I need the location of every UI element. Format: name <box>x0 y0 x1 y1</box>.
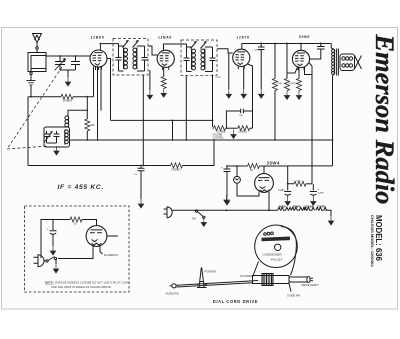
power plug <box>164 207 270 218</box>
oscillator grid line <box>68 110 87 116</box>
inset tube bottom leads <box>58 246 103 259</box>
inset switch <box>46 257 57 265</box>
wire IFT2 to 12AT6 grid <box>217 49 233 53</box>
tube 50B5 <box>292 44 309 71</box>
wire loop to ground bus <box>30 86 32 97</box>
svg-text:.02MFD: .02MFD <box>254 50 262 52</box>
resistor 220K plate load <box>273 44 283 141</box>
wire: loop top to 12BE6 grid <box>46 55 90 57</box>
filament 12AT6 <box>316 204 327 210</box>
internal wiring <box>119 46 148 71</box>
variable capacitor C1A (ant tuning) <box>55 56 66 71</box>
secondary coil <box>133 48 137 70</box>
trimmer capacitor C2 <box>71 56 80 70</box>
AVC drops <box>172 120 174 140</box>
svg-text:22K: 22K <box>90 123 95 127</box>
svg-text:NOTE: CHASSIS MODELS 120036B D: NOTE: CHASSIS MODELS 120036B DO NOT USE … <box>45 281 130 285</box>
svg-text:IF = 455 KC.: IF = 455 KC. <box>58 184 105 191</box>
resistor 470K grid <box>285 44 298 91</box>
svg-text:(3 MEG): (3 MEG) <box>239 131 248 133</box>
oscillator coil top <box>65 116 69 127</box>
cathode resistor 12BA6 <box>161 67 166 88</box>
electrolytic 50MFD <box>310 184 320 197</box>
left guide pin <box>170 284 177 288</box>
svg-text:+: + <box>318 187 320 191</box>
filament 12BA6 <box>304 204 315 210</box>
volume control <box>213 126 253 131</box>
svg-text:FILAMENTS: FILAMENTS <box>104 254 118 257</box>
pilot lamp <box>234 166 259 196</box>
AVC rail <box>111 119 213 121</box>
IFT2 secondary to volume control (AVC line) <box>212 75 214 128</box>
svg-text:+: + <box>47 227 49 231</box>
IFT1 bottom drop to AVC line <box>142 75 144 166</box>
svg-text:50B5: 50B5 <box>299 35 310 39</box>
B- return line <box>28 165 171 167</box>
inset electrolytic <box>47 220 57 247</box>
filter cap input lead <box>227 165 248 167</box>
svg-text:12BE6: 12BE6 <box>91 36 105 40</box>
B- bus <box>70 139 333 141</box>
wire 12BE6 plate to IFT1 <box>100 44 118 46</box>
IF transformer T1 (dashed box) <box>113 39 148 76</box>
electrolytic 30MFD output <box>282 184 292 197</box>
antenna <box>33 34 42 53</box>
tube 12BA6 <box>157 44 186 70</box>
drive shaft <box>253 274 314 286</box>
inset plug <box>34 255 46 267</box>
filter network <box>260 166 295 184</box>
svg-text:PULLEY: PULLEY <box>271 257 283 261</box>
filament 50B5 <box>278 204 292 210</box>
NOTE inset dashed box <box>25 206 130 292</box>
ground bus under antenna <box>28 96 61 98</box>
12AT6 plate to audio coupling capacitor .006 <box>226 64 252 128</box>
svg-text:12BA6: 12BA6 <box>304 204 313 208</box>
B- arrow onto power line <box>224 195 229 204</box>
switch SW <box>192 210 205 221</box>
loop antenna L1 <box>28 53 46 75</box>
svg-text:35W4: 35W4 <box>293 204 301 208</box>
wires below 12BE6 <box>94 67 102 141</box>
resistor 1000 ohm <box>294 181 306 186</box>
svg-text:1000: 1000 <box>296 181 302 183</box>
wire IFT1 to 12BA6 grid <box>148 46 157 55</box>
50B5 cathode resistor <box>294 67 302 90</box>
capacitor .02MFD bus to ground <box>254 44 265 90</box>
svg-text:POINTER: POINTER <box>205 270 217 274</box>
ground arrow below tuning caps <box>65 77 70 86</box>
svg-text:AND THE 35W4 IS WIRED AS SHOWN: AND THE 35W4 IS WIRED AS SHOWN ABOVE. <box>51 285 112 289</box>
wire joining caps to ground <box>60 70 76 77</box>
left capacitor <box>116 46 122 71</box>
inset wiring top <box>41 220 70 259</box>
resistor 22K <box>85 97 95 140</box>
resistor 10 MEG (AVC) <box>61 94 73 99</box>
50B5 plate feedback loop to B- bus <box>305 63 313 184</box>
tube 12AT6 <box>233 44 250 70</box>
B+ top bus <box>242 43 331 45</box>
svg-text:+: + <box>221 166 223 170</box>
drop from transformer to B- bus <box>288 76 333 166</box>
svg-text:220K: 220K <box>277 83 283 85</box>
svg-text:GUIDE PIN: GUIDE PIN <box>287 293 300 297</box>
svg-text:4½TURNS: 4½TURNS <box>240 274 253 278</box>
svg-text:50B5: 50B5 <box>279 204 286 208</box>
svg-text:30MFD: 30MFD <box>278 190 285 192</box>
svg-text:Emerson Radio: Emerson Radio <box>370 33 400 204</box>
oscillator tank box <box>44 127 70 147</box>
ground arrow under IFT1 <box>147 90 152 99</box>
wires below 12AT6 <box>229 53 244 89</box>
electrolytic cap 30MFD <box>221 166 231 197</box>
wire 12BE6 pin down to AVC rail <box>107 59 111 121</box>
primary coil <box>124 48 128 70</box>
svg-text:12AT6: 12AT6 <box>317 204 326 208</box>
filament string wire <box>269 192 278 210</box>
IF transformer T2 (dashed box) <box>181 40 217 75</box>
ground arrow under 12BA6 <box>161 88 166 97</box>
inset resistor 33 <box>70 217 82 222</box>
svg-text:1/2 MEG: 1/2 MEG <box>217 131 226 133</box>
svg-text:12BA6: 12BA6 <box>158 36 172 40</box>
capacitor .05 on return line <box>138 166 145 200</box>
svg-text:470K: 470K <box>216 77 222 79</box>
trimmer arrows <box>123 41 139 48</box>
svg-text:GUIDE PIN: GUIDE PIN <box>166 292 179 296</box>
resistor 3.3MEG in line <box>171 163 183 168</box>
tube 35W4 <box>255 174 274 193</box>
svg-text:10 MEG: 10 MEG <box>63 99 73 103</box>
svg-text:CHASSIS MODEL: 120036A: CHASSIS MODEL: 120036A <box>370 215 375 267</box>
svg-text:CONDENSER: CONDENSER <box>263 253 283 257</box>
IFT2 primary return drop <box>185 76 187 141</box>
svg-text:12AT6: 12AT6 <box>236 35 249 39</box>
svg-text:VOLUME: VOLUME <box>213 134 223 136</box>
svg-text:DIAL CORD DRIVE: DIAL CORD DRIVE <box>213 299 258 304</box>
left vertical rail <box>27 97 29 166</box>
ground arrow below osc box <box>54 146 59 155</box>
svg-text:50MFD: 50MFD <box>318 193 325 195</box>
pointer <box>197 268 208 288</box>
dial cord <box>281 227 296 276</box>
speaker <box>340 54 362 71</box>
dashed gang line <box>7 67 62 149</box>
capacitor at 50B5 plate <box>310 44 325 60</box>
svg-text:DRIVE SHAFT: DRIVE SHAFT <box>302 283 320 287</box>
svg-text:3.3MEG: 3.3MEG <box>171 167 181 171</box>
svg-text:CONTROL: CONTROL <box>213 137 225 139</box>
condenser pulley <box>255 225 298 268</box>
filament 35W4 <box>291 204 305 210</box>
output transformer T3 <box>331 44 338 77</box>
resistor 33 ohm <box>248 164 260 169</box>
inset tube 35W4 <box>86 226 118 247</box>
svg-text:35W4: 35W4 <box>267 161 281 166</box>
chassis ground below loop <box>27 75 36 86</box>
tube 12BE6 <box>90 44 107 70</box>
IFT1 secondary return to ground <box>149 70 151 90</box>
junction dots on bus <box>260 43 322 45</box>
